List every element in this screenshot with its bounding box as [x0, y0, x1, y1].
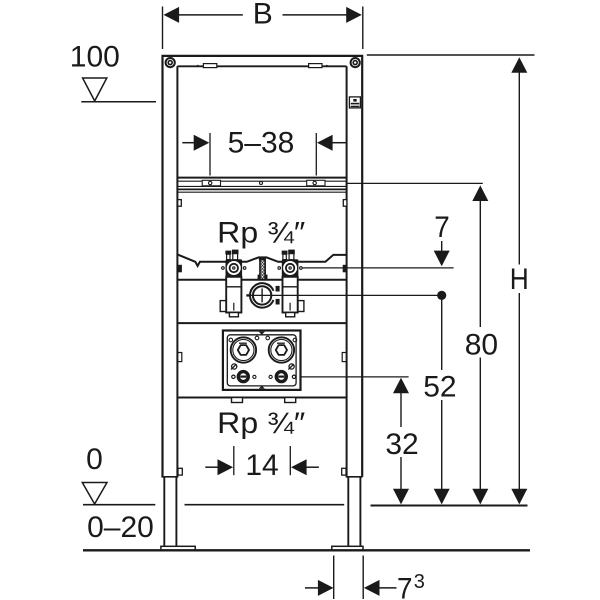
dimension 14 extension line left: [233, 446, 235, 475]
dimension B extension line right: [362, 7, 364, 50]
dimension 5-38 arrow right: [317, 135, 347, 151]
dimension B line: [178, 14, 348, 16]
label 7: [434, 211, 450, 244]
water connection left fitting: [220, 250, 246, 317]
floor line: [83, 549, 530, 551]
crossbar slot right: [307, 180, 325, 186]
valve box small holes: [229, 336, 297, 378]
label 32: [385, 428, 418, 461]
svg-text:7: 7: [397, 572, 413, 600]
rail clip left at bracket: [178, 265, 182, 273]
right foot plate: [332, 546, 363, 550]
crossbar inner line upper: [177, 180, 346, 182]
dimension 5-38 arrow left: [182, 135, 209, 151]
valve box big circle left: [231, 337, 256, 362]
right foot: [346, 477, 363, 546]
svg-text:H: H: [510, 263, 529, 296]
svg-text:3: 3: [414, 571, 425, 593]
label 80: [465, 328, 498, 361]
dimension H line: [511, 57, 527, 504]
screw hole top right: [351, 58, 360, 67]
dimension H top extension line: [367, 54, 535, 56]
crossbar lower flange line: [177, 191, 346, 193]
label 0-20: [87, 511, 154, 544]
dimension 14 arrow right: [291, 459, 319, 475]
dimension 7-3 arrow right: [364, 580, 397, 596]
rail clip right below crossbar: [343, 200, 347, 207]
water connection right fitting: [278, 250, 304, 317]
svg-text:Rp ¾″: Rp ¾″: [217, 407, 305, 440]
dimension 14 arrow left: [205, 459, 233, 475]
screw hole top left: [166, 58, 175, 67]
top clip right: [309, 64, 328, 68]
dimension 5-38 extension line right: [315, 133, 317, 176]
dimension B arrowhead right: [346, 7, 362, 23]
valve box screw right: [276, 372, 286, 382]
threaded center pipe: [258, 257, 268, 279]
svg-text:80: 80: [465, 328, 498, 361]
svg-text:7: 7: [434, 211, 450, 244]
crossbar reference line to 80 dimension: [347, 182, 483, 184]
label Rp 3/4 lower: [217, 407, 305, 440]
dimension 7 arrow: [434, 241, 450, 266]
frame outer profile: [163, 56, 363, 477]
concealed valve box: [223, 331, 301, 390]
frame left rail inner edge: [176, 66, 178, 477]
left foot plate: [161, 546, 195, 550]
sticker on right rail: [349, 97, 360, 108]
crossbar center hole: [260, 182, 263, 185]
drain connection circle: [246, 283, 279, 307]
valve box big circle right: [269, 337, 294, 362]
valve box screw left: [238, 372, 248, 382]
dimension 7-3 extension line right: [362, 556, 364, 600]
label H: [510, 263, 529, 296]
label 100: [70, 40, 120, 73]
level line 0 left segment: [83, 504, 155, 506]
label 52: [423, 370, 456, 403]
crossbar bottom edge: [177, 188, 346, 190]
label 14: [245, 449, 278, 482]
plate tab bottom left: [232, 398, 243, 403]
frame right rail inner edge: [346, 66, 348, 477]
bracket band bottom edge: [177, 279, 346, 281]
leader line from water fittings: [303, 267, 454, 269]
rail clip right at bracket: [343, 265, 347, 273]
dimension 7-3 extension line left: [333, 556, 335, 600]
left foot clip: [178, 468, 182, 475]
dimension 52 line: [434, 299, 450, 504]
lower mounting plate bottom edge: [177, 397, 346, 399]
plate notch right: [342, 353, 346, 362]
svg-text:14: 14: [245, 449, 278, 482]
level symbol 100 triangle: [83, 78, 107, 101]
svg-text:0–20: 0–20: [87, 511, 154, 544]
level line 100: [81, 101, 156, 103]
leader line from valve box: [301, 376, 409, 378]
dimension 14 extension line right: [289, 446, 291, 475]
svg-text:Rp ¾″: Rp ¾″: [217, 216, 305, 249]
svg-text:0: 0: [86, 443, 103, 476]
top clip left: [197, 64, 217, 68]
svg-text:100: 100: [70, 40, 120, 73]
label 7-3: [397, 571, 425, 600]
label B: [253, 0, 273, 30]
leader line from drain: [246, 294, 441, 296]
dimension 5-38 extension line left: [209, 133, 211, 176]
svg-text:B: B: [253, 0, 273, 30]
leader dot 52: [437, 291, 446, 300]
dimension B arrowhead left: [164, 7, 180, 23]
dimension 80 line: [472, 185, 488, 504]
left foot: [161, 477, 178, 546]
svg-text:52: 52: [423, 370, 456, 403]
dimension 7-3 arrow left: [305, 580, 334, 596]
svg-text:5–38: 5–38: [228, 126, 295, 159]
dimension B extension line left: [162, 7, 164, 50]
dimension ground line right: [371, 505, 528, 507]
crossbar top edge: [177, 177, 346, 179]
plate notch left: [178, 353, 182, 362]
dimension 32 line: [393, 378, 409, 505]
level symbol 0 triangle: [82, 483, 107, 505]
crossbar inner line lower: [177, 185, 346, 187]
bracket band top profile: [177, 254, 346, 266]
valve box side ports: [231, 364, 294, 370]
label Rp 3/4 upper: [217, 216, 305, 249]
level line 0 middle segment: [185, 504, 345, 506]
right foot clip: [342, 468, 346, 475]
lower mounting plate top edge: [177, 322, 346, 324]
frame top band bottom edge: [177, 65, 346, 67]
crossbar slot left: [202, 180, 220, 186]
label 0: [86, 443, 103, 476]
label 5-38: [228, 126, 295, 159]
rail clip left below crossbar: [178, 200, 182, 207]
plate tab bottom right: [285, 398, 296, 403]
svg-text:32: 32: [385, 428, 418, 461]
